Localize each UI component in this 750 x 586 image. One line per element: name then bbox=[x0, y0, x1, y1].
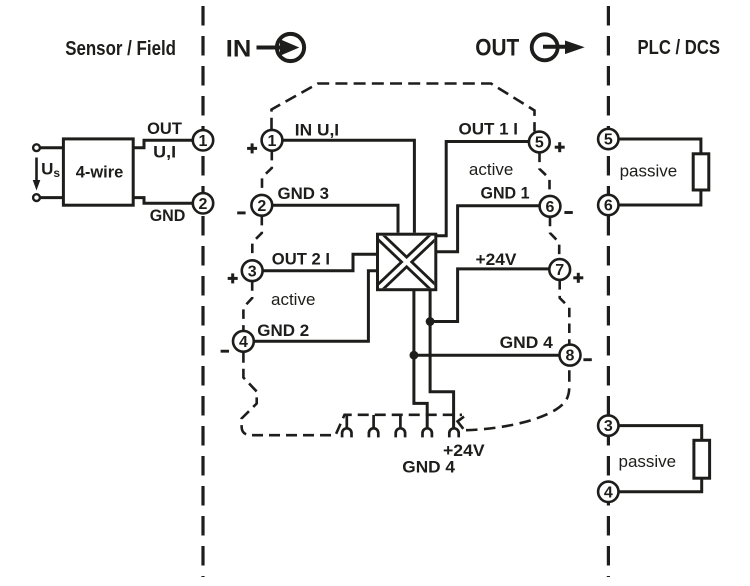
minus sign terminal 6 bbox=[564, 211, 572, 214]
svg-text:IN U,I: IN U,I bbox=[295, 121, 339, 139]
svg-text:passive: passive bbox=[620, 161, 678, 180]
wire sensor bottom bbox=[40, 196, 63, 199]
svg-text:GND: GND bbox=[150, 207, 186, 225]
4-wire box bbox=[63, 139, 133, 205]
module dashed outline between 1 and 2 bbox=[262, 151, 272, 195]
module dashed outline between 7 and 8 bbox=[560, 280, 570, 344]
rail contact 2 bbox=[369, 415, 378, 437]
svg-text:7: 7 bbox=[555, 262, 564, 279]
svg-text:3: 3 bbox=[604, 418, 613, 435]
rail contact 1 bbox=[342, 415, 351, 437]
minus sign terminal 4 bbox=[221, 350, 229, 353]
module dashed outline between 2 and 3 bbox=[252, 216, 261, 260]
svg-text:5: 5 bbox=[535, 135, 544, 152]
svg-text:+24V: +24V bbox=[476, 251, 517, 269]
rail contact 3 bbox=[396, 414, 405, 438]
module terminal 7 bbox=[549, 259, 570, 280]
PLC terminal 6 bbox=[598, 195, 618, 215]
Us arrow bbox=[35, 158, 38, 183]
module dashed outline between 5 and 6 bbox=[540, 153, 550, 196]
module terminal 5 bbox=[529, 132, 550, 153]
svg-text:1: 1 bbox=[199, 133, 208, 150]
wire OUT 1 I bbox=[437, 142, 530, 236]
svg-text:GND 3: GND 3 bbox=[278, 185, 330, 203]
module terminal 8 bbox=[560, 345, 581, 366]
rail contact 5 +24V bbox=[449, 428, 458, 437]
plus sign terminal 3 bbox=[228, 273, 238, 283]
field terminal 1 bbox=[193, 130, 213, 150]
module dashed outline bottom right hook to terminal 8 bbox=[458, 417, 465, 429]
rail contact 4 GND4 bbox=[423, 428, 432, 437]
svg-text:3: 3 bbox=[248, 263, 257, 280]
junction dot GND4 bbox=[410, 351, 419, 360]
plus sign terminal 5 bbox=[555, 142, 565, 152]
svg-text:4: 4 bbox=[239, 334, 248, 351]
wire GND 4 to terminal 8 bbox=[414, 354, 560, 357]
svg-text:4: 4 bbox=[604, 484, 613, 501]
svg-text:4-wire: 4-wire bbox=[76, 164, 124, 182]
svg-text:8: 8 bbox=[566, 348, 575, 365]
module dashed outline top bbox=[272, 84, 535, 132]
wire bus GND4 vertical bbox=[414, 290, 427, 430]
IN arrow symbol bbox=[257, 34, 305, 61]
module terminal 4 bbox=[233, 331, 254, 352]
minus sign terminal 2 bbox=[237, 211, 245, 214]
module terminal 1 bbox=[262, 130, 283, 151]
plus sign terminal 7 bbox=[573, 273, 583, 283]
wire IN U,I bbox=[282, 140, 414, 233]
junction dot +24V bbox=[426, 317, 435, 326]
PLC load wire top bbox=[619, 139, 701, 205]
wire GND 3 bbox=[272, 205, 398, 233]
module dashed outline between 3 and 4 bbox=[243, 281, 252, 331]
field terminal 2 bbox=[193, 193, 213, 213]
minus sign terminal 8 bbox=[583, 358, 591, 361]
sensor terminal circle bottom bbox=[33, 194, 40, 201]
svg-text:U,I: U,I bbox=[153, 144, 176, 162]
wire GND 2 bbox=[254, 271, 377, 342]
svg-text:OUT: OUT bbox=[147, 120, 182, 138]
wire OUT 2 I bbox=[263, 254, 377, 271]
wire bus +24V vertical bbox=[430, 290, 454, 430]
svg-text:+24V: +24V bbox=[443, 442, 485, 460]
svg-text:6: 6 bbox=[546, 199, 555, 216]
svg-text:OUT 2 I: OUT 2 I bbox=[272, 251, 330, 269]
OUT arrow symbol bbox=[532, 34, 585, 60]
PLC terminal 4 bbox=[598, 482, 618, 502]
svg-text:s: s bbox=[53, 166, 60, 180]
svg-text:GND 4: GND 4 bbox=[402, 459, 456, 477]
right dashed border line bbox=[607, 6, 610, 577]
svg-text:IN: IN bbox=[226, 35, 252, 62]
left dashed border line bbox=[201, 6, 204, 577]
svg-text:Sensor / Field: Sensor / Field bbox=[65, 38, 176, 60]
wire +24V to terminal 7 bbox=[430, 269, 549, 322]
svg-text:passive: passive bbox=[619, 452, 677, 471]
svg-text:6: 6 bbox=[604, 198, 613, 215]
sensor terminal circle top bbox=[33, 144, 40, 151]
isolator X box U1 bbox=[378, 234, 436, 290]
svg-text:2: 2 bbox=[199, 196, 208, 213]
plus sign terminal 1 bbox=[247, 143, 257, 153]
PLC terminal 5 bbox=[598, 129, 618, 149]
PLC resistor top bbox=[693, 154, 709, 190]
svg-text:5: 5 bbox=[604, 132, 613, 149]
wire box to terminal 1 bbox=[133, 140, 193, 147]
module dashed outline between 6 and 7 bbox=[550, 217, 559, 259]
svg-text:OUT: OUT bbox=[475, 34, 519, 61]
module terminal 2 bbox=[251, 195, 272, 216]
svg-text:PLC / DCS: PLC / DCS bbox=[638, 37, 721, 59]
svg-text:active: active bbox=[271, 290, 315, 309]
svg-text:1: 1 bbox=[268, 133, 277, 150]
wire sensor top bbox=[40, 146, 63, 149]
svg-text:OUT 1 I: OUT 1 I bbox=[459, 120, 519, 138]
svg-text:2: 2 bbox=[257, 198, 266, 215]
svg-text:active: active bbox=[469, 160, 513, 179]
wire GND 1 bbox=[437, 206, 540, 252]
PLC terminal 3 bbox=[598, 415, 618, 435]
PLC resistor bottom bbox=[694, 440, 710, 478]
module terminal 6 bbox=[540, 196, 561, 217]
PLC load wire bottom bbox=[619, 426, 702, 492]
svg-text:GND 4: GND 4 bbox=[500, 334, 554, 352]
svg-text:U: U bbox=[41, 160, 53, 179]
module terminal 3 bbox=[242, 260, 263, 281]
svg-text:GND 1: GND 1 bbox=[481, 185, 530, 203]
svg-text:GND 2: GND 2 bbox=[257, 322, 309, 340]
module dashed outline bottom left bbox=[242, 352, 462, 436]
wire box to terminal 2 bbox=[133, 198, 193, 204]
